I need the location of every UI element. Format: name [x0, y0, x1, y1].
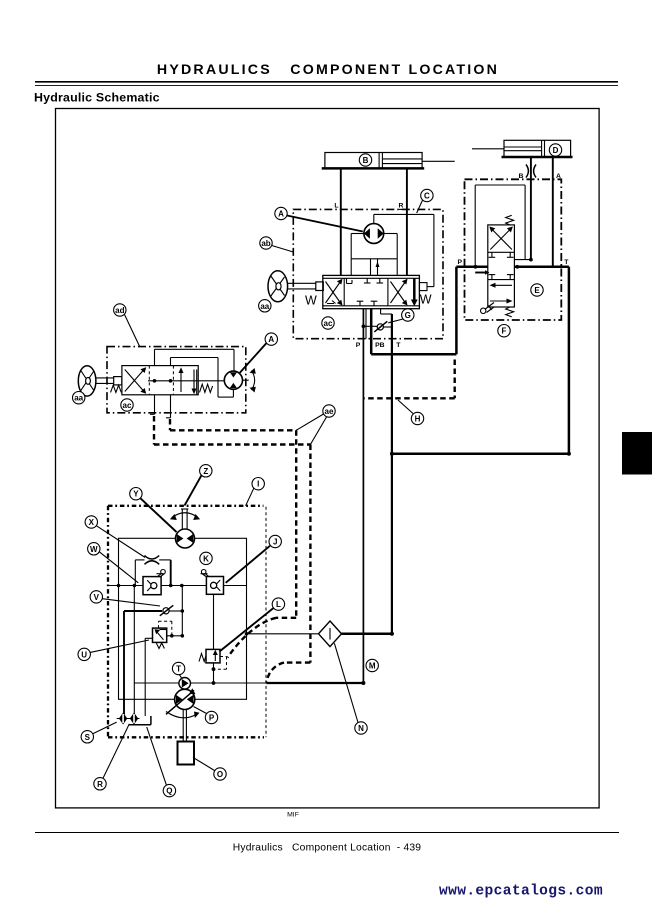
charge pump (fan): [134, 678, 266, 690]
svg-text:R: R: [97, 780, 103, 789]
svg-text:aa: aa: [74, 394, 83, 403]
reservoir bracket: [129, 716, 151, 725]
svg-text:W: W: [420, 293, 432, 307]
label S: [81, 722, 117, 743]
wire T main line down: [391, 314, 393, 634]
spring right (steering valve): [200, 384, 213, 392]
wire PB to E box (thick): [371, 267, 456, 354]
svg-text:H: H: [415, 415, 421, 424]
pump unit inner frame: [119, 538, 247, 699]
label ad: [114, 304, 140, 347]
label Z: [185, 465, 213, 506]
label K: [200, 552, 212, 564]
svg-text:Y: Y: [133, 490, 139, 499]
wire E T return (thick): [390, 265, 571, 456]
label X: [85, 516, 145, 558]
orifice on port B line: [526, 165, 536, 178]
svg-text:L: L: [276, 600, 281, 609]
wires motor loop to valve: [351, 259, 397, 276]
label E: [531, 284, 543, 296]
svg-text:U: U: [81, 650, 87, 659]
E valve bottom section arrows: [490, 283, 513, 304]
svg-text:T: T: [176, 665, 181, 674]
label L: [220, 598, 285, 652]
svg-text:K: K: [203, 554, 209, 563]
main control valve (SCV) body: [323, 275, 420, 308]
label D: [549, 144, 561, 156]
wire steering drain 2: [166, 395, 171, 418]
svg-text:W: W: [305, 294, 317, 308]
label F: [498, 325, 510, 337]
svg-text:ac: ac: [123, 401, 132, 410]
svg-text:ac: ac: [324, 319, 333, 328]
label ab: [260, 237, 294, 252]
svg-text:W: W: [90, 545, 98, 554]
valve right section down arrow: [411, 279, 418, 307]
label I: [246, 478, 265, 506]
check valve W: [143, 577, 161, 595]
svg-text:B: B: [363, 156, 369, 165]
svg-text:www.epcatalogs.com: www.epcatalogs.com: [439, 884, 603, 900]
svg-text:aa: aa: [260, 302, 269, 311]
main pump rotation arrow: [166, 712, 200, 719]
cylinder D: [472, 140, 573, 157]
steering valve body: [122, 366, 198, 395]
svg-text:A: A: [278, 210, 284, 219]
svg-text:P: P: [209, 714, 215, 723]
svg-text:Hydraulics Component Locatio: Hydraulics Component Location - 439: [233, 843, 422, 854]
wire cylinder B right leg (R): [399, 168, 407, 275]
relief valve L: [199, 594, 220, 683]
svg-text:J: J: [273, 538, 277, 547]
label Q: [147, 727, 176, 797]
wire U drain: [145, 638, 152, 716]
wire PB port (power beyond): [370, 309, 373, 354]
label aa (lower handwheel): [73, 392, 85, 404]
engine coupling O: [178, 742, 195, 765]
wire filter to T line (thick): [342, 633, 392, 636]
svg-text:M: M: [369, 662, 376, 671]
relief valve L pilot (dashed): [212, 657, 227, 672]
suction strainers: [117, 586, 140, 725]
svg-text:I: I: [257, 480, 259, 489]
hose ae line 1 (dashed): [170, 419, 296, 658]
E valve centre ticks: [489, 252, 514, 279]
label P (main pump): [194, 707, 218, 724]
steering valve left section crossed arrows: [125, 367, 146, 393]
svg-text:V: V: [94, 593, 100, 602]
enclosure box I (dash-dot): [108, 506, 266, 738]
enclosure box E (dash-dot): [465, 179, 562, 320]
check valve V branch: [124, 605, 184, 616]
svg-text:S: S: [85, 733, 91, 742]
priority valve body in E: [488, 225, 515, 307]
label ac (inside ab box): [322, 317, 334, 329]
fan motor rotation arrows: [170, 513, 200, 520]
svg-text:Hydraulic Schematic: Hydraulic Schematic: [34, 91, 160, 105]
wire cylinder B left leg (L): [340, 168, 342, 275]
enclosure box ad (dash-dot): [107, 347, 246, 413]
valve right section crossed arrows: [391, 279, 408, 306]
feedback loop rectangle in E: [475, 185, 533, 267]
valve centre section port ticks: [357, 278, 383, 306]
orifice G symbol: [362, 321, 392, 332]
label B: [359, 154, 371, 166]
svg-text:X: X: [89, 518, 95, 527]
E valve spring top: [506, 215, 514, 225]
wire steering outer bridge: [155, 349, 235, 371]
check valve J pilot lever: [201, 570, 209, 577]
figure border frame: [56, 109, 600, 808]
svg-text:E: E: [534, 286, 540, 295]
svg-text:D: D: [553, 146, 559, 155]
svg-text:HYDRAULICS COMPONENT LOCATIO: HYDRAULICS COMPONENT LOCATION: [157, 62, 499, 78]
label Y: [130, 488, 177, 533]
wire pump discharge to P line: [266, 681, 365, 685]
E valve top section crossed arrows: [489, 227, 513, 250]
wire gallery to V junction: [181, 586, 183, 636]
check valve W pilot lever: [157, 570, 166, 577]
svg-text:L: L: [334, 203, 338, 210]
svg-text:Z: Z: [203, 467, 208, 476]
label A (motor callout): [275, 207, 363, 231]
steering motor rotation arrows: [250, 368, 256, 393]
hose ae line 2 (dashed): [154, 416, 310, 682]
svg-text:ad: ad: [115, 306, 124, 315]
svg-text:C: C: [424, 192, 430, 201]
relief valve U: [153, 628, 167, 648]
fan motor: [176, 509, 195, 548]
svg-text:PB: PB: [375, 342, 385, 349]
valve end cap right: [419, 283, 427, 291]
wire P port down from valve: [362, 309, 364, 683]
wire steering drain 1: [150, 395, 155, 415]
svg-text:G: G: [405, 311, 411, 320]
label G: [388, 309, 414, 323]
hose H (dashed): [363, 360, 454, 399]
label O: [193, 757, 226, 780]
motor loop rectangle: [351, 234, 397, 259]
cylinder B: [322, 153, 455, 169]
svg-text:A: A: [268, 335, 274, 344]
breather symbol: [135, 556, 170, 586]
hydraulic motor A (reel): [364, 214, 434, 286]
label ae: [296, 405, 335, 445]
page edge tab: [622, 432, 652, 475]
spring left (steering valve): [111, 385, 122, 392]
svg-text:F: F: [502, 327, 507, 336]
E valve pilot actuator: [481, 303, 495, 314]
label M: [366, 659, 378, 671]
label J: [226, 535, 282, 583]
steering motor A: [224, 371, 248, 389]
svg-text:P: P: [458, 259, 463, 266]
relief valve U pilot (dashed): [159, 621, 172, 636]
valve left section crossed arrows: [326, 278, 353, 305]
label U: [78, 640, 149, 661]
wire E P supply: [456, 265, 489, 275]
pump shaft: [183, 710, 186, 742]
label H: [398, 400, 424, 425]
suction line (main gallery): [108, 584, 247, 588]
wire steering inner bridge: [171, 358, 234, 398]
handwheel aa (upper): [268, 271, 323, 302]
svg-text:O: O: [217, 770, 223, 779]
wire T port jog: [381, 309, 392, 314]
wire U outlet: [167, 634, 184, 638]
label ac (inside ad box): [121, 399, 133, 411]
junction T line / filter: [390, 632, 394, 636]
svg-text:ae: ae: [325, 407, 334, 416]
svg-text:N: N: [358, 724, 364, 733]
footer rule: [35, 832, 619, 834]
check valve J: [206, 577, 223, 595]
svg-text:MIF: MIF: [287, 812, 299, 819]
label N: [334, 643, 367, 734]
label C: [417, 189, 433, 213]
label A (steering motor): [240, 333, 278, 373]
svg-text:P: P: [356, 342, 361, 349]
steering valve right section arrows: [179, 367, 197, 395]
wire cylinder D port B leg: [530, 157, 532, 260]
title double rule: [35, 82, 618, 86]
wire cylinder D port A leg: [552, 157, 554, 267]
wire P port stub: [365, 309, 367, 339]
wire steering centre line: [148, 379, 224, 383]
label aa (upper handwheel): [259, 300, 271, 312]
label V: [90, 591, 160, 606]
label R: [94, 724, 130, 790]
handwheel aa (lower): [78, 366, 122, 396]
main pump: [166, 688, 196, 714]
svg-text:R: R: [399, 203, 404, 210]
E valve spring bottom: [506, 307, 514, 317]
enclosure box ab (dash-dot): [293, 209, 443, 338]
label T (charge pump): [172, 662, 184, 678]
label W: [88, 543, 139, 583]
svg-text:ab: ab: [261, 239, 270, 248]
svg-text:Q: Q: [166, 787, 172, 796]
oil filter I (diamond): [245, 621, 342, 647]
